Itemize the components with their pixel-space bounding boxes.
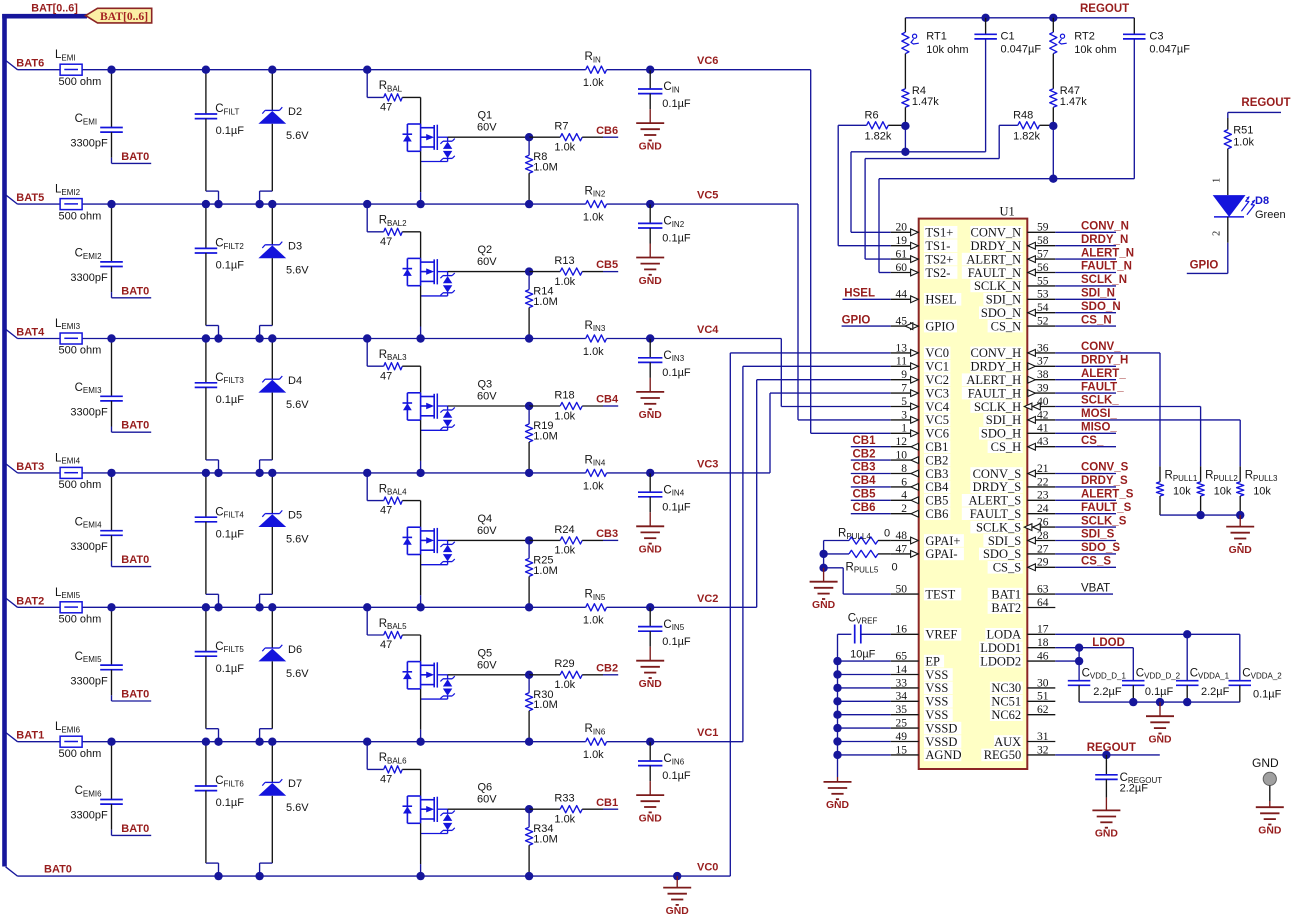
junction C_FILT3 to BAT3 — [214, 469, 222, 477]
wire/net label VBAT — [1055, 582, 1113, 594]
svg-text:1.82k: 1.82k — [865, 130, 892, 142]
wire gate Q3 — [448, 405, 529, 407]
svg-text:SDI_H: SDI_H — [986, 413, 1021, 427]
pin 13 (VC0) of U1 — [891, 342, 951, 360]
svg-text:9: 9 — [901, 369, 907, 381]
net label BAT0 (C_EMI2 return) — [121, 285, 149, 297]
svg-text:BAT0: BAT0 — [121, 420, 149, 432]
wire rail BAT3 — [18, 472, 651, 474]
svg-text:63: 63 — [1037, 584, 1049, 596]
svg-text:BAT[0..6]: BAT[0..6] — [31, 2, 78, 14]
svg-text:HSEL: HSEL — [844, 288, 875, 300]
svg-text:BAT2: BAT2 — [991, 601, 1021, 615]
net label CB3 — [596, 528, 618, 540]
junction GPAI/GND/TEST — [819, 564, 827, 572]
resistor R8 — [526, 137, 558, 204]
svg-text:R7: R7 — [554, 121, 568, 133]
svg-text:3300pF: 3300pF — [70, 138, 108, 150]
svg-text:FAULT_: FAULT_ — [1081, 381, 1124, 393]
wire REGOUT to R51 — [1228, 112, 1281, 118]
svg-text:GND: GND — [1252, 756, 1279, 770]
svg-text:CB3: CB3 — [925, 467, 948, 481]
wire net TS2- to pin 60 — [879, 126, 1053, 273]
svg-text:NC30: NC30 — [991, 681, 1021, 695]
capacitor C_IN5 — [638, 607, 691, 648]
svg-text:1.0M: 1.0M — [533, 834, 557, 846]
svg-text:29: 29 — [1037, 557, 1049, 569]
svg-text:CONV_N: CONV_N — [1081, 221, 1129, 233]
pin 23 (ALERT_S) of U1 — [962, 490, 1056, 508]
svg-text:GND: GND — [639, 679, 663, 690]
svg-text:35: 35 — [896, 704, 908, 716]
svg-text:ALERT_N: ALERT_N — [1081, 247, 1134, 259]
junction rail/R_BAL4 — [363, 469, 371, 477]
svg-text:CB6: CB6 — [853, 502, 876, 514]
junction D7 to BAT0 — [255, 872, 263, 880]
svg-text:38: 38 — [1037, 369, 1049, 381]
capacitor C_EMI5 — [70, 607, 151, 701]
ground below C_IN3 — [636, 378, 664, 421]
svg-text:1: 1 — [1212, 178, 1223, 183]
net label BAT4 — [16, 327, 45, 339]
capacitor C_FILT4 — [195, 473, 245, 607]
net label BAT1 — [16, 730, 44, 742]
svg-text:ALERT_N: ALERT_N — [966, 252, 1021, 266]
wire/net label FAULT_ — [1055, 381, 1124, 393]
junction TS2-/C3 bottom — [1049, 175, 1134, 183]
svg-text:27: 27 — [1037, 543, 1049, 555]
pin 61 (TS2+) of U1 — [891, 249, 958, 267]
svg-text:GND: GND — [639, 813, 663, 824]
wire/net label CS_ — [1055, 435, 1116, 447]
pin 1 label of D8 — [1212, 178, 1223, 183]
junction C_FILT4 to BAT2 — [214, 603, 222, 611]
wire gate Q5 — [448, 674, 529, 676]
wire decoupling gnd rail — [1079, 701, 1240, 703]
pin 28 (SDI_S) of U1 — [983, 530, 1055, 548]
svg-text:BAT4: BAT4 — [16, 327, 45, 339]
svg-text:VSS: VSS — [925, 681, 948, 695]
svg-text:MISO_: MISO_ — [1081, 422, 1117, 434]
capacitor C_FILT3 — [195, 339, 245, 473]
junction Q1 source to BAT5 — [416, 200, 424, 208]
svg-text:GND: GND — [1095, 829, 1119, 840]
wire/net label CONV_N — [1055, 221, 1129, 233]
svg-text:0.1µF: 0.1µF — [216, 125, 245, 137]
svg-text:GPIO: GPIO — [1190, 260, 1219, 272]
svg-text:D8: D8 — [1255, 195, 1269, 207]
svg-text:SCLK_: SCLK_ — [1081, 395, 1119, 407]
net label BAT0 — [44, 864, 72, 876]
svg-text:VC0: VC0 — [697, 862, 718, 874]
svg-text:1.0M: 1.0M — [533, 699, 557, 711]
resistor R48 — [999, 110, 1053, 143]
svg-text:1.0k: 1.0k — [583, 615, 604, 627]
net label REGOUT (top) — [1080, 3, 1129, 15]
svg-text:CB5: CB5 — [596, 259, 618, 271]
capacitor C_FILT5 — [195, 607, 245, 741]
svg-text:GND: GND — [666, 906, 690, 917]
svg-text:1.0k: 1.0k — [583, 480, 604, 492]
svg-text:21: 21 — [1037, 463, 1049, 475]
resistor R_PULL4 — [824, 528, 891, 545]
svg-text:CB2: CB2 — [853, 448, 876, 460]
svg-text:15: 15 — [896, 744, 908, 756]
ground VSS bus — [824, 777, 852, 811]
net label BAT5 — [16, 192, 44, 204]
transistor Q6 — [403, 769, 498, 876]
svg-text:CONV_S: CONV_S — [1081, 462, 1129, 474]
svg-text:47: 47 — [380, 639, 392, 651]
svg-text:Q4: Q4 — [478, 513, 493, 525]
wire/net label MOSI_ — [1055, 408, 1240, 420]
junction Q3 source to BAT3 — [416, 469, 424, 477]
svg-text:2: 2 — [1212, 231, 1223, 236]
junction R8 to BAT5 — [525, 200, 533, 208]
resistor R19 — [526, 406, 558, 473]
svg-text:SDO_N: SDO_N — [981, 306, 1021, 320]
wire rail BAT5 — [18, 203, 651, 205]
svg-text:2.2µF: 2.2µF — [1093, 686, 1122, 698]
resistor R30 — [526, 675, 558, 742]
svg-text:Q5: Q5 — [478, 647, 493, 659]
svg-text:65: 65 — [896, 651, 908, 663]
svg-text:D5: D5 — [288, 509, 302, 521]
net label VC2 — [697, 593, 718, 605]
svg-text:CB3: CB3 — [596, 528, 618, 540]
wire/net label SDI_N — [1055, 288, 1116, 300]
svg-text:SCLK_S: SCLK_S — [976, 520, 1021, 534]
resistor R_IN5 — [583, 589, 607, 627]
net label BAT0 (C_EMI6 return) — [121, 823, 149, 835]
wire+net label CB4 (U1 side) — [851, 475, 891, 487]
svg-text:CS_N: CS_N — [991, 319, 1022, 333]
pin 26 (SCLK_S) of U1 — [970, 517, 1055, 535]
junction gate Q2 — [525, 267, 533, 275]
wire/net label SDO_N — [1055, 301, 1120, 313]
pin 41 (SDO_H) of U1 — [979, 423, 1055, 441]
junction rail/D2 — [268, 66, 276, 74]
resistor R_BAL4 — [367, 473, 420, 517]
svg-text:VREF: VREF — [925, 628, 957, 642]
wire gate Q2 — [448, 271, 529, 273]
net label BAT0 (C_EMI4 return) — [121, 554, 149, 566]
pin 52 (CS_N) of U1 — [988, 316, 1056, 334]
wire net VC6 — [650, 70, 891, 434]
svg-text:0.1µF: 0.1µF — [662, 636, 691, 648]
svg-text:61: 61 — [896, 249, 908, 261]
svg-text:BAT0: BAT0 — [121, 151, 149, 163]
pin 63 (BAT1) of U1 — [988, 584, 1056, 602]
resistor R_PULL3 — [1237, 466, 1278, 515]
svg-text:REG50: REG50 — [984, 748, 1022, 762]
svg-text:3300pF: 3300pF — [70, 675, 108, 687]
svg-text:10k: 10k — [1214, 486, 1232, 498]
svg-text:18: 18 — [1037, 637, 1049, 649]
junction C_VDDA_1/rail — [1183, 698, 1191, 706]
pin 62 (NC62) of U1 — [990, 704, 1055, 722]
capacitor C1 — [974, 18, 1041, 152]
svg-text:51: 51 — [1037, 691, 1049, 703]
junction GPAI- — [819, 550, 827, 558]
resistor R34 — [526, 809, 558, 876]
svg-text:VSS: VSS — [925, 708, 948, 722]
svg-text:2: 2 — [901, 503, 907, 515]
svg-text:24: 24 — [1037, 503, 1049, 515]
junction gate Q4 — [525, 536, 533, 544]
resistor R_BAL6 — [367, 742, 420, 786]
svg-text:SDI_S: SDI_S — [1081, 529, 1115, 541]
svg-text:U1: U1 — [1000, 205, 1015, 219]
svg-text:60V: 60V — [477, 525, 497, 537]
svg-text:SDO_S: SDO_S — [1081, 542, 1120, 554]
svg-text:47: 47 — [380, 370, 392, 382]
wire rail BAT2 — [18, 606, 651, 608]
wire gate Q1 — [448, 136, 529, 138]
pin 24 (FAULT_S) of U1 — [962, 503, 1056, 521]
ground decoupling rail — [1146, 702, 1174, 745]
svg-text:GND: GND — [1258, 826, 1282, 837]
svg-text:CS_S: CS_S — [993, 561, 1022, 575]
svg-text:TS2+: TS2+ — [925, 252, 953, 266]
bus entry port BAT[0..6] — [86, 8, 152, 23]
svg-text:D6: D6 — [288, 644, 302, 656]
svg-text:1.0k: 1.0k — [554, 276, 575, 288]
wire/net label CONV_ — [1055, 341, 1160, 353]
wire R_PULL bottom rail — [1160, 514, 1240, 516]
svg-text:FAULT_N: FAULT_N — [968, 266, 1021, 280]
pin 17 (LODA) of U1 — [985, 624, 1055, 642]
svg-text:55: 55 — [1037, 275, 1049, 287]
svg-text:CB1: CB1 — [853, 435, 877, 447]
svg-text:BAT0: BAT0 — [121, 823, 149, 835]
svg-text:NC62: NC62 — [991, 708, 1021, 722]
resistor R13 — [529, 255, 618, 288]
net label VC4 — [697, 324, 719, 336]
svg-text:BAT[0..6]: BAT[0..6] — [100, 10, 148, 23]
junction rail/C_IN — [646, 66, 654, 74]
wire net TS1+ to pin 20 — [851, 126, 905, 232]
svg-text:D3: D3 — [288, 241, 302, 253]
svg-text:52: 52 — [1037, 316, 1049, 328]
svg-text:SCLK_H: SCLK_H — [974, 400, 1021, 414]
pin 10 (CB2) of U1 — [891, 450, 951, 468]
svg-text:BAT0: BAT0 — [121, 554, 149, 566]
svg-text:VSSD: VSSD — [925, 735, 957, 749]
pin 14 (VSS) of U1 — [891, 664, 953, 682]
pin 18 (LDOD1) of U1 — [979, 637, 1055, 655]
svg-text:11: 11 — [896, 356, 907, 368]
svg-text:500 ohm: 500 ohm — [59, 345, 102, 357]
svg-text:BAT0: BAT0 — [44, 864, 72, 876]
svg-text:R47: R47 — [1060, 85, 1080, 97]
junction rail/R_BAL3 — [363, 334, 371, 342]
svg-text:1.0M: 1.0M — [533, 162, 557, 174]
resistor R4 — [902, 54, 940, 126]
svg-text:60V: 60V — [477, 659, 497, 671]
junction R4/R6/TS1+ — [901, 122, 909, 130]
svg-text:NC51: NC51 — [991, 695, 1021, 709]
LED D8 — [1213, 195, 1286, 221]
svg-text:VC0: VC0 — [925, 346, 949, 360]
junction D5 to BAT2 — [255, 603, 263, 611]
svg-text:10: 10 — [896, 450, 908, 462]
wire+net label GPIO (pin45) — [842, 314, 891, 326]
junction rail/D3 — [268, 200, 276, 208]
svg-text:FAULT_S: FAULT_S — [970, 507, 1021, 521]
wire/net label ALERT_ — [1055, 368, 1126, 380]
wire+net label CB1 (U1 side) — [851, 435, 891, 447]
svg-text:TS2-: TS2- — [925, 266, 950, 280]
junction D6 to BAT1 — [255, 738, 263, 746]
svg-text:DRDY_N: DRDY_N — [970, 239, 1021, 253]
svg-text:10k ohm: 10k ohm — [926, 44, 968, 56]
capacitor C_IN — [638, 70, 691, 111]
svg-text:16: 16 — [896, 624, 908, 636]
svg-text:CB4: CB4 — [596, 394, 619, 406]
svg-text:4: 4 — [901, 490, 907, 502]
svg-text:0.1µF: 0.1µF — [662, 367, 691, 379]
bus net label BAT[0..6] — [31, 2, 78, 14]
svg-text:1.47k: 1.47k — [912, 96, 939, 108]
wire/net label DRDY_S — [1055, 475, 1128, 487]
pin 20 (TS1+) of U1 — [891, 222, 958, 240]
wire net REGOUT (REG50) — [1055, 754, 1160, 756]
capacitor C_EMI6 — [70, 742, 151, 836]
svg-text:SDI_S: SDI_S — [988, 534, 1021, 548]
svg-text:CONV_S: CONV_S — [973, 467, 1022, 481]
pin 2 label of D8 — [1212, 231, 1223, 236]
wire CONV_ to R_PULL1 — [1159, 353, 1161, 466]
svg-text:500 ohm: 500 ohm — [59, 748, 102, 760]
capacitor CVDD_D_1 — [1068, 667, 1127, 702]
svg-text:CS_: CS_ — [1081, 435, 1104, 447]
svg-text:LODA: LODA — [986, 628, 1021, 642]
wire tap BAT2 from bus — [6, 598, 18, 607]
pin 54 (SDO_N) of U1 — [979, 302, 1055, 320]
resistor R33 — [529, 793, 618, 826]
svg-text:C1: C1 — [1001, 31, 1015, 43]
net label BAT0 (C_EMI return) — [121, 151, 149, 163]
svg-text:1.0k: 1.0k — [1233, 137, 1254, 149]
svg-text:SDI_N: SDI_N — [986, 293, 1021, 307]
svg-text:CS_H: CS_H — [991, 440, 1022, 454]
junction rail/C_FILT3 — [202, 334, 210, 342]
capacitor C_FILT2 — [195, 204, 245, 338]
svg-text:19: 19 — [896, 235, 908, 247]
net label CB5 — [596, 259, 618, 271]
svg-text:Q2: Q2 — [478, 244, 493, 256]
junction D3 to BAT4 — [255, 334, 263, 342]
net label BAT0 (C_EMI3 return) — [121, 420, 149, 432]
wire REGOUT top rail — [905, 17, 1134, 19]
wire rail BAT1 — [18, 741, 651, 743]
junction rail/C_EMI3 — [107, 334, 115, 342]
junction rail/C_IN3 — [646, 334, 654, 342]
junction gate Q1 — [525, 133, 533, 141]
zener diode D3 — [258, 204, 309, 338]
svg-text:RT2: RT2 — [1074, 31, 1095, 43]
wire net VC5 — [650, 204, 891, 420]
wire tap BAT0 from bus — [6, 867, 18, 876]
pin 12 (CB1) of U1 — [891, 436, 951, 454]
svg-text:56: 56 — [1037, 262, 1049, 274]
capacitor C_IN4 — [638, 473, 691, 514]
svg-text:5.6V: 5.6V — [286, 668, 309, 680]
svg-text:0.047µF: 0.047µF — [1149, 44, 1190, 56]
svg-text:10µF: 10µF — [850, 649, 876, 661]
resistor R6 — [838, 110, 905, 143]
svg-text:43: 43 — [1037, 436, 1049, 448]
svg-text:30: 30 — [1037, 677, 1049, 689]
junction R47/R48/TS2- — [1049, 122, 1057, 130]
capacitor C3 — [1123, 18, 1190, 179]
pin 43 (CS_H) of U1 — [988, 436, 1056, 454]
svg-text:SDI_N: SDI_N — [1081, 288, 1115, 300]
svg-text:R6: R6 — [865, 110, 879, 122]
svg-text:1: 1 — [901, 423, 907, 435]
pin 1 (VC6) of U1 — [891, 423, 951, 441]
thermistor RT2 — [1050, 18, 1117, 56]
svg-text:BAT0: BAT0 — [121, 285, 149, 297]
svg-text:C3: C3 — [1149, 31, 1163, 43]
op-amp U1 (battery monitor IC body) — [919, 219, 1028, 769]
pin 53 (SDI_N) of U1 — [983, 289, 1055, 307]
svg-text:LDOD2: LDOD2 — [980, 654, 1021, 668]
net label VC3 — [697, 458, 718, 470]
wire/net label CONV_S — [1055, 462, 1128, 474]
svg-text:CS_S: CS_S — [1081, 556, 1111, 568]
net label CB4 — [596, 394, 619, 406]
junction LDOD2 — [1075, 657, 1083, 665]
svg-text:5.6V: 5.6V — [286, 399, 309, 411]
svg-text:7: 7 — [901, 383, 907, 395]
wire+net label CB5 (U1 side) — [851, 489, 891, 501]
pin 35 (VSS) of U1 — [891, 704, 953, 722]
svg-text:CONV_: CONV_ — [1081, 341, 1121, 353]
net label REGOUT (bottom) — [1087, 742, 1136, 754]
svg-text:47: 47 — [380, 505, 392, 517]
svg-text:1.82k: 1.82k — [1013, 130, 1040, 142]
pin 34 (VSS) of U1 — [891, 691, 953, 709]
junction rail/C_IN5 — [646, 603, 654, 611]
svg-text:VC3: VC3 — [925, 386, 949, 400]
wire/net label ALERT_S — [1055, 489, 1133, 501]
svg-text:GND: GND — [639, 276, 663, 287]
pin 4 (CB5) of U1 — [891, 490, 951, 508]
pin 25 (VSSD) of U1 — [891, 718, 962, 736]
svg-text:CONV_H: CONV_H — [970, 346, 1021, 360]
svg-text:GPAI-: GPAI- — [925, 547, 957, 561]
svg-text:CB6: CB6 — [925, 507, 948, 521]
svg-text:VC3: VC3 — [697, 458, 718, 470]
svg-text:SCLK_N: SCLK_N — [1081, 274, 1127, 286]
junction R_PULL3/rail — [1236, 511, 1244, 519]
svg-text:3300pF: 3300pF — [70, 810, 108, 822]
svg-text:5.6V: 5.6V — [286, 130, 309, 142]
svg-text:Q1: Q1 — [478, 110, 493, 122]
svg-text:R4: R4 — [912, 85, 926, 97]
pin 15 (AGND) of U1 — [891, 744, 962, 762]
wire TEST to GND — [824, 568, 891, 594]
wire/net label SCLK_S — [1055, 515, 1126, 527]
svg-text:39: 39 — [1037, 383, 1049, 395]
wire rail BAT4 — [18, 338, 651, 340]
wire net VC2 — [650, 380, 891, 608]
wire/net label SDO_S — [1055, 542, 1120, 554]
wire+net label CB3 (U1 side) — [851, 462, 891, 474]
svg-text:59: 59 — [1037, 222, 1049, 234]
